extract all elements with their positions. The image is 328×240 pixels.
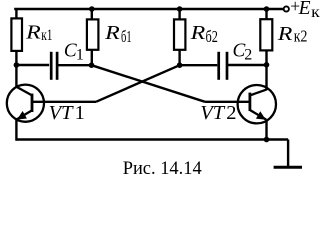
wire Rb1 bottom lead — [91, 50, 93, 65]
svg-text:к: к — [311, 4, 320, 21]
terminal +Ek (open circle) — [284, 6, 289, 11]
wire VT1 base horizontal — [33, 101, 96, 103]
svg-text:к2: к2 — [294, 27, 308, 46]
transistor VT1 circle — [7, 85, 44, 122]
resistor Rb1 — [87, 19, 99, 49]
wire VT2 base horizontal — [205, 101, 249, 103]
transistor VT1 emitter diagonal — [17, 110, 32, 119]
svg-text:E: E — [298, 0, 311, 19]
node dot VT2 emitter on bottom rail — [264, 137, 270, 143]
wire Rb1 top stub — [91, 9, 93, 19]
node dot VT1 collector node — [14, 62, 20, 68]
wire cross-coupling node A to VT2 base (diagonal) — [92, 65, 206, 102]
wire node1 to C1 left plate — [16, 64, 49, 66]
wire Rb2 bottom lead — [178, 50, 180, 65]
wire Rk1 bottom lead / VT1 collector line — [15, 51, 17, 88]
resistor Rb2 — [174, 19, 185, 49]
transistor VT1 collector diagonal — [16, 87, 32, 96]
node dot on rail under Rb1 — [89, 6, 95, 12]
wire VT1 emitter down lead — [15, 119, 17, 141]
wire ground drop — [287, 140, 289, 167]
svg-text:б1: б1 — [121, 27, 132, 46]
svg-text:R: R — [277, 23, 293, 45]
svg-text:2: 2 — [226, 102, 236, 124]
transistor VT2 circle — [238, 85, 276, 123]
wire C1 right plate to node A — [58, 64, 91, 66]
wire Rb2 top stub — [178, 9, 180, 19]
wire bottom rail — [16, 138, 288, 140]
svg-text:к1: к1 — [41, 27, 52, 44]
transistor VT2 emitter arrow — [256, 111, 266, 120]
wire VT2 emitter down lead — [265, 119, 267, 141]
transistor VT2 collector diagonal — [250, 90, 267, 96]
resistor Rk1 — [11, 18, 22, 51]
transistor VT1 base bar — [31, 94, 34, 112]
svg-text:б2: б2 — [206, 27, 218, 46]
node dot VT2 collector node — [264, 62, 270, 68]
svg-text:2: 2 — [244, 46, 252, 63]
transistor VT1 emitter arrow — [17, 111, 27, 120]
wire Rk1 top stub — [15, 9, 17, 19]
svg-text:R: R — [104, 22, 120, 44]
node dot on rail under Rk2 — [264, 6, 270, 12]
svg-text:Рис. 14.14: Рис. 14.14 — [123, 158, 202, 179]
ground — [274, 166, 302, 169]
transistor VT2 base bar — [248, 93, 251, 111]
node dot on rail under Rb2 — [177, 6, 183, 12]
wire cross-coupling node B to VT1 base (diagonal) — [96, 65, 180, 102]
capacitor C2 plates — [219, 52, 227, 80]
capacitor C1 plates — [51, 52, 57, 80]
wire top rail +Ek — [14, 8, 283, 10]
node B dot (Rb2 / C2 / diagonal) — [177, 62, 183, 68]
node A dot (Rb1 / C1 / diagonal) — [89, 62, 95, 68]
svg-text:1: 1 — [75, 102, 85, 124]
svg-text:R: R — [190, 22, 206, 44]
svg-text:VT: VT — [49, 102, 75, 124]
wire Rk2 bottom lead / VT2 collector line — [265, 50, 267, 90]
wire C2 right plate to collector node of VT2 — [227, 64, 266, 66]
svg-text:VT: VT — [200, 102, 226, 124]
resistor Rk2 — [260, 19, 272, 50]
transistor VT2 emitter diagonal — [250, 110, 266, 120]
wire Rk2 top stub — [265, 9, 267, 19]
svg-text:R: R — [25, 22, 41, 44]
wire node B to C2 left plate — [180, 64, 218, 66]
svg-text:1: 1 — [76, 46, 84, 63]
